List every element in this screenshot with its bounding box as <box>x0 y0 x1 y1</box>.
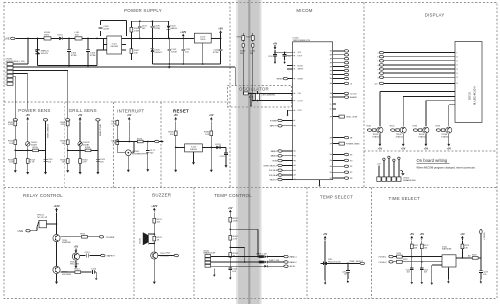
diode D102 <box>167 21 178 38</box>
power label +5V (interrupt) <box>127 114 132 121</box>
svg-text:+5V: +5V <box>377 164 381 166</box>
resistor R204 (filled) <box>256 253 268 258</box>
svg-text:+12V: +12V <box>151 204 157 208</box>
IC102 regulator 78L05 <box>194 33 211 64</box>
svg-text:TEMP-1 10K: TEMP-1 10K <box>256 253 268 255</box>
svg-text:ALARM: ALARM <box>350 96 357 99</box>
svg-text:SAFETY: SAFETY <box>270 125 278 128</box>
power label +5V (reset right) <box>209 114 214 121</box>
svg-text:10D471: 10D471 <box>41 53 49 55</box>
svg-text:R192: R192 <box>246 36 251 38</box>
resistor R223 <box>461 241 469 250</box>
node ALARM (micom right) <box>333 96 357 99</box>
resistor R172 <box>111 140 118 145</box>
svg-text:INTERRUPTER: INTERRUPTER <box>132 153 148 155</box>
block divider: grill sens / interrupt <box>113 102 115 188</box>
wire: micom test pin <box>288 110 293 113</box>
power label +5V (temp control) <box>228 207 233 214</box>
ground (micom test) <box>286 113 288 116</box>
svg-text:4.7K: 4.7K <box>30 162 35 164</box>
capacitor C151 <box>44 159 54 163</box>
svg-text:KRC243M: KRC243M <box>62 274 71 276</box>
node BAND2 (micom left) <box>271 155 293 158</box>
resistor R182 <box>204 131 213 136</box>
wire: digit 1 drive <box>380 92 455 127</box>
resistor R173 <box>137 138 143 143</box>
resistor R112 <box>75 269 81 274</box>
svg-text:R111: R111 <box>81 233 87 235</box>
wire: display segment a <box>377 51 457 54</box>
ground (interrupt cap) <box>146 167 149 172</box>
wire: display segment +5V <box>374 82 458 85</box>
transistor TR102 <box>396 127 406 138</box>
inductor L101 <box>75 32 83 40</box>
svg-text:SELECT: SELECT <box>270 179 278 181</box>
wire: micom vdd <box>275 50 293 54</box>
svg-text:3: 3 <box>5 72 6 74</box>
svg-text:TMP87CM46N-3724: TMP87CM46N-3724 <box>293 40 310 42</box>
svg-text:R132: R132 <box>390 126 395 128</box>
svg-text:6: 6 <box>5 84 6 86</box>
ground (TR113) <box>55 279 58 284</box>
node SIGN (micom left) <box>272 159 292 162</box>
junction dot (temp select) <box>347 263 349 265</box>
ground (sens left) <box>14 168 17 173</box>
capacitor C221 <box>406 257 414 281</box>
svg-text:12: 12 <box>456 65 458 67</box>
power label +5V (relay mid) <box>74 246 79 253</box>
connector pin RESET (micom) <box>277 77 293 80</box>
power label +5V (reset left) <box>174 114 179 121</box>
power label +5V (digit 4) <box>447 134 452 151</box>
resistor R111 <box>81 233 88 238</box>
varistor ZNR101 <box>35 38 49 65</box>
ground (temp select left) <box>324 281 327 285</box>
connector pin (sens left top) <box>13 119 17 122</box>
transformer winding R106 <box>130 21 140 60</box>
power label +5V (temp select) <box>323 233 328 240</box>
node GRILL_SIGN (micom right) <box>333 115 358 118</box>
svg-text:+5V: +5V <box>447 148 452 151</box>
DSP101 display ic <box>455 42 482 123</box>
power label +12V (relay) <box>53 204 59 212</box>
svg-text:LIVE: LIVE <box>18 230 24 233</box>
node PULSE-1 <box>379 255 394 258</box>
node POWER (micom left) <box>270 119 293 122</box>
junction dots AC return <box>68 65 89 67</box>
svg-text:KTA1504: KTA1504 <box>441 135 449 138</box>
wire: sens link row <box>15 149 45 151</box>
svg-text:AD-IN: AD-IN <box>290 265 296 268</box>
block divider: micom/display <box>363 3 365 188</box>
IC101 switching regulator <box>103 36 128 54</box>
svg-text:+5V: +5V <box>410 233 415 236</box>
transistor TR101 <box>373 127 383 138</box>
svg-text:13: 13 <box>456 69 458 71</box>
svg-text:CLOCK: CLOCK <box>350 93 357 95</box>
svg-text:On board writing: On board writing <box>417 158 448 163</box>
IC201 encoder ic <box>442 246 456 267</box>
connector LIVE (top input) <box>4 37 15 40</box>
wire: interrupt +5V column <box>128 122 130 142</box>
svg-text:INTERRUPT: INTERRUPT <box>117 108 144 113</box>
connector pin TEMP_SELECT <box>360 262 364 265</box>
svg-text:TEMP CONTROL: TEMP CONTROL <box>214 193 252 198</box>
thermistor TH101 <box>26 142 38 147</box>
pin numbers micom left lower inner <box>294 120 296 181</box>
resistor R164 <box>79 159 89 164</box>
wire: buzzer column <box>153 213 155 252</box>
resistor R205 (filled) <box>259 260 280 263</box>
resistor R121 <box>153 218 163 223</box>
wire: temp row 1 <box>211 256 284 258</box>
resistor R221 <box>410 241 418 250</box>
block divider: interrupt / reset <box>160 102 162 188</box>
wire: CN101 pin2 to oscillator area <box>13 67 235 86</box>
svg-text:C113: C113 <box>85 252 91 254</box>
connector CN101 <box>5 59 25 86</box>
node POWER_SENS (micom right) <box>333 142 360 145</box>
svg-text:+5V: +5V <box>401 148 406 151</box>
svg-text:+5V: +5V <box>174 114 179 117</box>
capacitor C101 <box>67 38 77 65</box>
svg-text:C181: C181 <box>220 156 226 158</box>
svg-text:BUZZER: BUZZER <box>152 193 171 198</box>
svg-text:TEMP-2 10K: TEMP-2 10K <box>269 260 281 262</box>
power label +5V (digit 2) <box>401 134 406 151</box>
wire: X-OUT line <box>253 100 293 102</box>
connector pin INT out <box>155 140 164 143</box>
net label H-LIMIT <box>240 51 246 55</box>
resistor R202 <box>229 236 239 241</box>
svg-text:16: 16 <box>456 83 458 85</box>
power label +5V (time select R221) <box>410 233 415 240</box>
ground (TR112) <box>74 260 77 268</box>
wire: buzzer base row <box>158 255 174 257</box>
svg-text:1: 1 <box>5 64 6 66</box>
wire: sens mid column <box>79 122 81 170</box>
capacitor C102 <box>86 38 96 65</box>
svg-text:10K: 10K <box>62 162 66 164</box>
wire: temp row 2 <box>211 261 284 263</box>
IC103 reset ic <box>185 144 203 160</box>
svg-text:+5V: +5V <box>127 114 132 117</box>
svg-text:X-OUT: X-OUT <box>297 100 303 102</box>
svg-text:BZ101: BZ101 <box>140 238 142 244</box>
wire: reset ic input row <box>176 146 185 148</box>
svg-text:R226: R226 <box>472 255 477 257</box>
svg-text:b: b <box>377 57 378 59</box>
ground (temp control cap) <box>229 276 232 280</box>
svg-text:+5V: +5V <box>218 26 223 30</box>
svg-text:CST4.00MGWU: CST4.00MGWU <box>262 94 276 96</box>
resistor R222 <box>420 241 428 250</box>
svg-text:P2: P2 <box>350 172 352 174</box>
node PULSE-A (micom left) <box>269 174 293 177</box>
svg-text:R225: R225 <box>403 259 408 261</box>
svg-text:103: 103 <box>407 272 410 274</box>
svg-text:LNK564P: LNK564P <box>110 46 118 48</box>
svg-text:RELAY CONTROL: RELAY CONTROL <box>23 193 63 198</box>
ground (reset right) <box>210 168 213 173</box>
ground (micom caps) <box>274 60 286 64</box>
block divider: temp control / temp select <box>306 188 308 299</box>
junction dots (micom vdd) <box>274 51 285 53</box>
svg-text:R133: R133 <box>413 126 418 128</box>
wire: interrupt signal row <box>117 141 155 143</box>
capacitor C161 <box>96 159 106 163</box>
wire: sens left column <box>67 121 69 168</box>
svg-text:KRC243M: KRC243M <box>70 264 79 266</box>
svg-text:LIVE: LIVE <box>4 37 10 40</box>
wire: AC return rail <box>38 50 104 66</box>
svg-text:TEMP_SELECT: TEMP_SELECT <box>263 165 278 167</box>
node TEMP_SELECT (micom left) <box>263 164 292 167</box>
block divider: display bottom <box>364 150 497 152</box>
svg-text:SM6AWN-6DH: SM6AWN-6DH <box>403 179 416 182</box>
diode D203 <box>264 265 267 268</box>
connector pin BAND-1 <box>284 255 297 258</box>
node SAFETY (micom left) <box>270 125 293 128</box>
svg-text:103: 103 <box>483 274 486 276</box>
svg-text:POWER SUPPLY: POWER SUPPLY <box>124 8 162 13</box>
wire: secondary ground rail <box>152 63 220 65</box>
node 5B (micom right) <box>333 136 353 139</box>
wire: temp select column <box>324 241 326 281</box>
wire: display segment b <box>377 55 458 58</box>
svg-text:+5V: +5V <box>378 148 383 151</box>
svg-text:+5V: +5V <box>323 233 328 236</box>
piezo buzzer BZ101 <box>140 232 155 245</box>
wire: CN101 pin3 to grill sens <box>13 71 68 119</box>
svg-text:502AT: 502AT <box>83 144 90 147</box>
IC100 MICOM (TMP87CM46N) <box>293 38 333 180</box>
wire: pulse row 2 <box>394 261 443 263</box>
wire: cn102 gnd <box>213 268 215 272</box>
svg-text:R191: R191 <box>237 36 242 38</box>
svg-text:KTA1504: KTA1504 <box>373 135 381 138</box>
svg-text:DISPLAY: DISPLAY <box>425 13 445 18</box>
ground (relay cap) <box>95 276 97 280</box>
capacitor C120 <box>268 55 277 61</box>
svg-text:SMAW250-NF: SMAW250-NF <box>203 252 216 255</box>
svg-text:R112: R112 <box>75 269 81 271</box>
svg-text:R224: R224 <box>397 253 402 255</box>
pin names micom left inner <box>294 52 304 112</box>
svg-text:PULSE-B: PULSE-B <box>269 170 278 172</box>
svg-text:POWER_SENS: POWER_SENS <box>346 144 360 146</box>
power label +5V <box>218 26 223 38</box>
svg-text:GRILL SENS: GRILL SENS <box>98 124 100 137</box>
wire: digit 3 drive <box>426 101 455 127</box>
junction dot (reset in) <box>175 147 177 149</box>
svg-text:120K: 120K <box>233 220 239 222</box>
connector pin BUZZER <box>167 253 179 257</box>
svg-text:KTA1504: KTA1504 <box>396 135 404 138</box>
wire: ic201 left gnd <box>432 265 442 281</box>
capacitor C201 <box>228 268 238 276</box>
label On board writing <box>417 158 450 163</box>
svg-text:472M: 472M <box>154 28 160 30</box>
wire: reset right column <box>210 122 212 147</box>
svg-text:473M: 473M <box>90 55 96 57</box>
capacitor C107 <box>138 21 148 38</box>
resistor R134 <box>435 126 445 132</box>
wire: display segment e <box>377 68 458 71</box>
wire: live rail <box>15 37 220 39</box>
svg-text:222M: 222M <box>103 29 109 31</box>
wire: digit 4 drive <box>449 105 455 126</box>
node PULSE-2 <box>379 261 394 264</box>
capacitor C114 <box>91 269 97 277</box>
connector pin (AC sense 2) <box>252 43 255 47</box>
junction dots (temp rows) <box>244 256 259 263</box>
svg-text:c: c <box>378 61 379 63</box>
wire: reset output row <box>202 147 226 167</box>
block divider: power sens / grill sens <box>64 102 66 188</box>
junction dots (interrupt) <box>116 141 148 143</box>
wire: sens right column <box>97 121 99 170</box>
oscillator dashed box <box>228 86 292 108</box>
resistor R152 <box>8 140 17 145</box>
block divider: temp select / time select <box>371 188 373 299</box>
wire: sens right column <box>45 121 47 170</box>
wires: writing connector pins <box>383 156 400 177</box>
connector LIVE (relay) <box>18 227 37 233</box>
wire: relay drive row <box>60 236 99 238</box>
wire: AC sense line 1 (in fold band) <box>242 33 244 93</box>
svg-text:MODE: MODE <box>297 65 303 67</box>
wire: TR112 output row <box>80 255 101 257</box>
relay RY101 <box>37 215 57 228</box>
ground (interrupt switch) <box>127 168 130 173</box>
net label L-LIMIT <box>250 51 255 55</box>
block divider: power supply bottom <box>4 101 230 103</box>
wire: sens mid column <box>27 122 29 170</box>
connector pin AD-IN <box>284 265 296 268</box>
power label +5V (sens) <box>26 114 31 121</box>
ground (power supply) <box>168 64 171 69</box>
resistor R225 <box>397 259 408 263</box>
wire: TR111 emitter to TR113 <box>56 242 58 266</box>
wire: ic201 bottom gnd <box>447 267 449 279</box>
wire: sens left column <box>14 121 16 168</box>
wire: micom varef pin stub <box>287 68 293 70</box>
svg-text:C114: C114 <box>91 269 97 271</box>
resistor R165 <box>85 147 91 152</box>
power label +5V (micom) <box>273 42 278 49</box>
svg-text:STOP: STOP <box>297 56 303 58</box>
connector CN102 <box>203 250 216 267</box>
interrupter switch SW101 <box>125 150 148 156</box>
wire: reset left column <box>175 122 177 168</box>
capacitor C222 <box>420 262 428 280</box>
resistor R181 <box>168 131 177 136</box>
svg-text:SW: SW <box>240 53 243 55</box>
diode D181 <box>216 144 222 149</box>
svg-text:10K: 10K <box>62 143 66 145</box>
resistor R131 <box>367 126 377 132</box>
svg-text:d: d <box>377 65 378 67</box>
svg-text:4.7K: 4.7K <box>233 239 238 241</box>
wire: pulse row 1 <box>394 256 443 258</box>
resistor R163 <box>60 159 69 164</box>
resistor R154 <box>26 159 36 164</box>
wire: temp row 3 <box>211 265 284 267</box>
ground (sens left) <box>66 168 69 173</box>
diode D202 <box>264 261 267 264</box>
svg-text:472M: 472M <box>213 52 219 54</box>
junction dots ground rail <box>168 63 203 65</box>
svg-text:+5V: +5V <box>460 233 465 236</box>
svg-text:BAND-1: BAND-1 <box>290 256 297 259</box>
wire: display segment f <box>378 72 458 75</box>
subcircuit: POWER SENS block <box>8 114 53 174</box>
svg-text:R134: R134 <box>435 126 440 128</box>
power label +5V (time select R222) <box>420 233 425 240</box>
ground (sens right) <box>44 170 47 175</box>
wire: micom gnd pin <box>319 180 321 184</box>
node BAND1 (micom left) <box>271 150 293 153</box>
wire: CN101 pin4 to power sens <box>13 73 28 109</box>
svg-text:POWER SENS: POWER SENS <box>46 124 48 139</box>
svg-text:250V: 250V <box>44 35 50 37</box>
svg-text:KIA7042: KIA7042 <box>190 148 197 151</box>
capacitor C111 <box>181 38 190 64</box>
scan fold gray band <box>236 0 262 304</box>
power label +5V (digit 3) <box>424 134 429 151</box>
resistor R171 <box>111 121 118 126</box>
svg-text:78L05: 78L05 <box>200 39 205 41</box>
block divider: buzzer / temp control <box>193 188 195 299</box>
svg-text:15: 15 <box>456 77 458 79</box>
wire: temp control pullup column <box>229 214 231 268</box>
ground (cn102) <box>213 273 216 277</box>
svg-text:473M: 473M <box>71 55 77 57</box>
snubber capacitor C106 <box>99 21 127 36</box>
wire: CN101 pin1 to live rail <box>13 38 28 64</box>
svg-text:POWER SENS: POWER SENS <box>18 108 50 113</box>
block divider: relay control / buzzer <box>133 188 135 299</box>
svg-text:SELECT: SELECT <box>483 233 485 241</box>
ground (sens right) <box>96 170 99 175</box>
power label +5V (writing) <box>377 164 381 177</box>
svg-text:e: e <box>377 69 378 71</box>
svg-text:SW: SW <box>250 53 253 55</box>
svg-text:+5V: +5V <box>228 207 233 210</box>
svg-text:D181: D181 <box>216 144 222 146</box>
transistor TR112 <box>70 253 80 266</box>
pin numbers micom right inner <box>330 51 332 180</box>
thermistor TH102 <box>78 142 90 147</box>
svg-text:SB160: SB160 <box>170 28 177 30</box>
svg-text:TIME SELECT: TIME SELECT <box>389 196 421 201</box>
svg-text:PULSE-1: PULSE-1 <box>379 257 387 259</box>
svg-text:P8: P8 <box>350 178 352 180</box>
power label +12V (buzzer) <box>151 204 157 212</box>
ground (reset cap) <box>225 163 228 168</box>
power label +5V (digit 1) <box>378 134 383 151</box>
wires: micom right port group A <box>333 50 353 109</box>
svg-text:11: 11 <box>456 61 458 63</box>
wire: display segment c <box>378 60 459 63</box>
svg-text:RESET: RESET <box>277 79 284 81</box>
capacitor C108 <box>151 21 161 38</box>
svg-text:R131: R131 <box>367 126 372 128</box>
transistor TR104 <box>441 127 451 138</box>
svg-text:GRILL SENS: GRILL SENS <box>69 108 97 113</box>
ground (sens mid) <box>79 170 82 175</box>
